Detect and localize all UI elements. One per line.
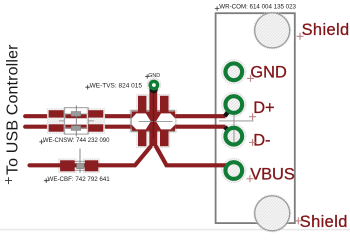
svg-text:WE-CBF: 742 792 641: WE-CBF: 742 792 641 (48, 176, 111, 183)
ferrite bead FB1 WE-CBF footprint (60, 149, 98, 173)
svg-text:To USB Controller: To USB Controller (5, 44, 22, 175)
connector pad VBUS halo (222, 158, 247, 183)
net label Shield top (297, 21, 350, 40)
shield hole top (254, 12, 291, 49)
svg-text:WR-COM: 614 004 135 023: WR-COM: 614 004 135 023 (219, 4, 296, 11)
svg-text:GND: GND (148, 73, 160, 79)
via GND halo (147, 78, 161, 92)
choke L1 WE-CNSW footprint (49, 106, 104, 137)
pads (138, 96, 146, 113)
wire D+ right segment (175, 114, 226, 118)
connector pad D- halo (222, 124, 247, 149)
label To USB Controller (5, 44, 22, 184)
connector pad GND halo (222, 60, 247, 85)
connector J1 outline (WR-COM) (216, 13, 295, 223)
wire VBUS (30, 147, 226, 166)
pin tip VBUS (black) (225, 166, 227, 167)
body copper (132, 111, 175, 130)
shield hole bottom (254, 195, 291, 232)
wire D- right segment (175, 125, 226, 129)
symbol centerline (152, 88, 154, 139)
label WE-CNSW (39, 138, 110, 144)
label GND small (145, 73, 160, 79)
label WE-CBF (44, 176, 110, 183)
connector pad D+ halo (222, 92, 247, 117)
via GND at TVS (149, 81, 157, 93)
svg-text:Shield: Shield (300, 213, 348, 231)
connector pad D+ ring (225, 96, 242, 113)
wire D- left segment (25, 125, 132, 129)
connector pad D- ring (225, 128, 242, 145)
svg-text:GND: GND (250, 63, 287, 81)
connector pad VBUS ring (225, 162, 242, 179)
net label Shield bottom (295, 213, 348, 231)
TVS diode array U1 WE-TVS footprint (131, 88, 175, 146)
label WR-COM (215, 4, 297, 11)
ferrite FB1 pad halos (59, 159, 77, 173)
net label D+ (249, 99, 275, 120)
pin tip D- (black) (225, 127, 229, 131)
net label GND (247, 63, 287, 82)
wire D+ left segment (25, 114, 132, 118)
pin tip D+ (black) (225, 111, 229, 117)
net label VBUS (247, 166, 295, 184)
label WE-TVS (85, 82, 142, 89)
bottom border line (0, 229, 350, 231)
svg-text:Shield: Shield (302, 21, 350, 39)
choke L1 pad halos (47, 109, 65, 134)
net label D- (249, 131, 270, 149)
connector centerline cross (219, 113, 254, 144)
connector pad GND ring (225, 63, 242, 80)
svg-text:VBUS: VBUS (250, 166, 295, 184)
svg-text:WE-CNSW: 744 232 090: WE-CNSW: 744 232 090 (43, 138, 110, 144)
svg-text:D-: D- (253, 131, 270, 149)
svg-text:D+: D+ (253, 99, 274, 117)
TVS U1 pad and body halos (137, 94, 170, 114)
svg-text:WE-TVS: 824 015: WE-TVS: 824 015 (90, 82, 143, 89)
